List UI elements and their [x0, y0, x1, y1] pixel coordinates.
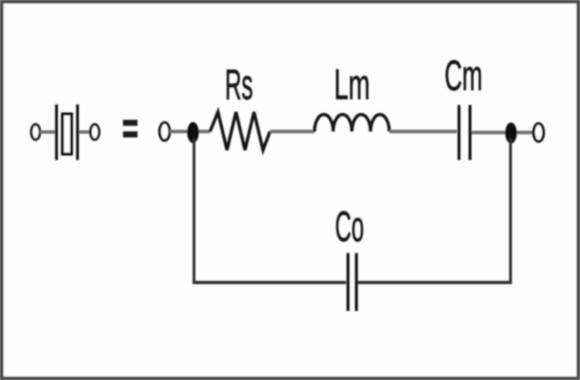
capacitor Co plate right	[355, 253, 358, 311]
wire bottom right segment	[358, 281, 512, 284]
svg-text:Lm: Lm	[334, 61, 370, 109]
wire capacitor Cm to output	[472, 131, 535, 134]
wire inductor to capacitor Cm	[390, 130, 458, 133]
node OUT terminal	[534, 124, 544, 142]
crystal plate right	[76, 105, 79, 161]
svg-text:Cm: Cm	[445, 52, 483, 100]
wire right vertical branch	[509, 138, 512, 284]
inductor Lm	[315, 114, 390, 131]
node IN terminal	[160, 123, 170, 141]
wire crystal right lead	[79, 130, 91, 133]
wire left vertical branch	[193, 138, 196, 284]
resistor Rs	[210, 112, 270, 150]
node A junction dot	[187, 122, 199, 143]
crystal Y1 left terminal	[31, 124, 40, 139]
svg-text:Rs: Rs	[225, 61, 253, 109]
wire bottom left segment	[193, 281, 346, 284]
svg-text:Co: Co	[335, 203, 364, 251]
wire crystal left lead	[40, 130, 55, 133]
capacitor Cm plate left	[458, 105, 461, 160]
equals sign	[123, 120, 138, 138]
crystal body	[63, 114, 72, 154]
node B junction dot	[505, 123, 517, 144]
capacitor Co plate left	[347, 253, 350, 311]
capacitor Cm plate right	[469, 105, 472, 160]
wire resistor to inductor	[270, 130, 315, 133]
crystal Y1 right terminal	[91, 124, 100, 139]
wire terminal to resistor	[170, 130, 211, 133]
crystal plate left	[55, 105, 58, 161]
